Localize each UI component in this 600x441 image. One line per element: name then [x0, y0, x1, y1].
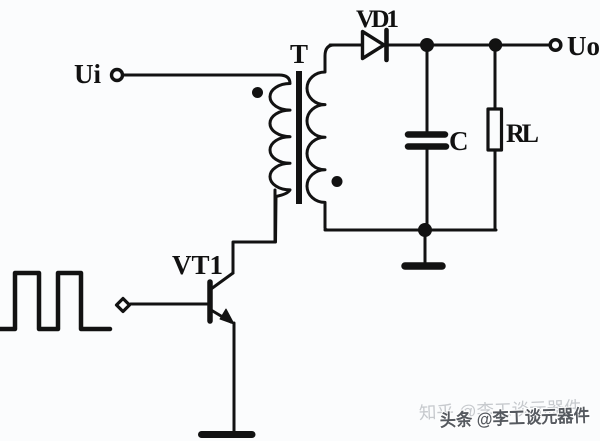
base bar — [207, 282, 213, 321]
resistor RL body — [488, 109, 502, 150]
svg-text:VD1: VD1 — [356, 4, 399, 33]
capacitor branch wire bottom — [426, 150, 429, 230]
ground bar (output) — [405, 262, 442, 270]
input terminal (diamond) — [117, 299, 130, 312]
resistor RL branch wire bottom — [494, 150, 497, 230]
terminal Uo — [550, 40, 561, 51]
svg-text:C: C — [449, 126, 469, 156]
emitter arrowhead — [220, 309, 234, 324]
wire collector to primary — [233, 190, 275, 273]
node junction RL — [489, 38, 502, 51]
svg-text:RL: RL — [506, 119, 539, 148]
diode VD1 cathode bar — [384, 30, 389, 60]
transformer core — [296, 71, 302, 204]
node junction bottom — [418, 223, 432, 237]
svg-text:Uo: Uo — [567, 31, 600, 61]
ground (emitter) — [202, 431, 253, 438]
wire diode to Uo — [388, 44, 550, 47]
capacitor C plates — [408, 131, 445, 138]
transistor VT1 — [210, 273, 234, 324]
diode VD1 triangle — [363, 32, 385, 59]
svg-text:头条 @李工谈元器件: 头条 @李工谈元器件 — [439, 405, 590, 430]
watermark toutiao (dark) — [439, 405, 590, 430]
node junction diode/cap — [420, 38, 434, 52]
emitter diagonal — [211, 310, 231, 322]
svg-text:VT1: VT1 — [172, 250, 223, 280]
capacitor branch wire top — [426, 45, 429, 131]
transformer T secondary winding — [307, 45, 334, 230]
watermark zhihu (light) — [419, 397, 583, 423]
collector diagonal — [211, 273, 233, 289]
ground stub (output) — [424, 230, 427, 262]
wire secondary top to diode — [330, 44, 361, 47]
svg-text:T: T — [290, 39, 308, 69]
transformer T primary winding — [270, 75, 290, 242]
square wave input signal — [0, 273, 110, 329]
resistor RL branch wire top — [494, 45, 497, 109]
primary phase dot — [252, 87, 263, 98]
bottom return wire — [325, 229, 496, 232]
wire emitter down — [233, 323, 236, 431]
wire base input — [131, 303, 208, 306]
terminal Ui — [112, 70, 123, 81]
svg-text:Ui: Ui — [74, 59, 101, 89]
secondary phase dot — [332, 176, 343, 187]
wire Ui to transformer — [123, 74, 279, 77]
